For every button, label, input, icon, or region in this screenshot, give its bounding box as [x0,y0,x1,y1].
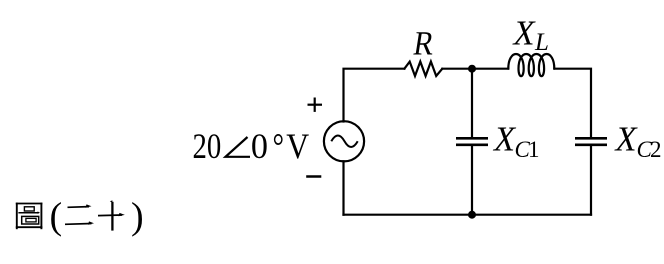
source value text 0 [251,126,268,166]
wire: capacitor XC2 to bottom-right corner [590,146,592,215]
plus polarity mark [308,98,323,112]
svg-text:1: 1 [528,137,540,162]
angle symbol [226,137,251,157]
svg-text:X: X [492,121,517,159]
svg-text:2: 2 [650,137,662,162]
node A junction dot [468,65,476,73]
svg-text:V: V [286,127,309,166]
wire: node A down to capacitor XC1 [471,69,473,137]
resistor R [404,62,442,76]
wire: resistor to node A and on to inductor [442,68,508,70]
svg-text:(: ( [50,196,63,238]
AC source V1 circle [324,121,364,161]
wire: inductor to top-right corner down to capacitor XC2 [554,69,591,137]
AC source sine wave [331,136,357,148]
inductor XL coil [508,54,554,76]
wire: source bottom lead [342,161,344,214]
wire: source top lead and top-left corner to resistor [344,69,405,122]
svg-text:20: 20 [193,127,222,167]
svg-text:°: ° [273,127,285,167]
capacitor XC2 plates [575,138,607,145]
capacitor XC1 plates [456,138,488,145]
degree symbol [273,127,285,167]
caption character ER (two) [65,204,94,224]
caption character TU (figure) [16,203,43,230]
node B junction dot [468,211,476,219]
label XC2 [614,121,662,162]
minus polarity mark [306,175,321,178]
volts V [286,127,309,166]
svg-text:0: 0 [251,126,268,166]
label XC1 [492,121,540,162]
label R [411,24,437,62]
svg-text:R: R [411,24,437,62]
source value text 20 [193,127,222,167]
svg-text:X: X [512,14,537,52]
svg-text:): ) [131,196,144,238]
wire: bottom rail [344,214,592,216]
wire: capacitor XC1 down to node B [471,146,473,215]
label XL [512,14,549,55]
svg-text:X: X [614,121,639,159]
svg-text:L: L [534,29,549,56]
caption character SHI (ten) [98,200,125,230]
